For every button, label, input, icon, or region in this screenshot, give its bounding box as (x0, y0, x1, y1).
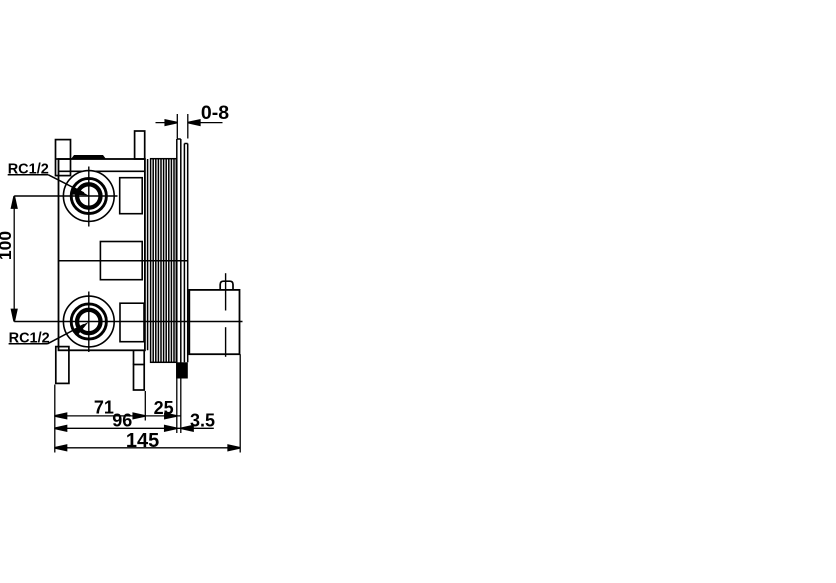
wall plate back (183, 144, 185, 363)
outlet nub (220, 281, 233, 290)
bottom dim extension lines (55, 354, 241, 452)
dim 100 left (13, 196, 15, 322)
body right flange line (147, 159, 149, 350)
LEFTVIEW (0, 102, 243, 453)
leader RC1/2 bottom (9, 343, 48, 345)
leader RC1/2 top (8, 174, 49, 176)
body cap line (59, 170, 145, 172)
plate foot block (176, 362, 188, 378)
svg-text:71: 71 (94, 398, 114, 418)
middle recess (100, 242, 142, 280)
svg-text:25: 25 (154, 398, 174, 418)
svg-text:RC1/2: RC1/2 (9, 331, 50, 347)
top mounting lug (56, 140, 71, 176)
lower port RC1/2 (63, 296, 114, 347)
lower recess (120, 303, 144, 342)
valve body (side view) (59, 159, 145, 350)
crosshair upper port (14, 195, 117, 197)
svg-text:0-8: 0-8 (201, 102, 229, 124)
bottom mounting lug (56, 347, 69, 384)
svg-text:96: 96 (112, 411, 132, 431)
svg-text:3.5: 3.5 (190, 411, 215, 431)
svg-text:100: 100 (0, 231, 15, 260)
svg-text:RC1/2: RC1/2 (8, 162, 49, 178)
labels (0, 102, 229, 452)
upper port RC1/2 (63, 171, 114, 222)
dim line 145 (55, 447, 241, 449)
dim line 96 / 3.5 (55, 427, 214, 429)
svg-text:145: 145 (126, 430, 159, 452)
protruding outlet box (189, 290, 239, 354)
crosshair lower port / box centerline (14, 321, 242, 323)
dim 0-8 (156, 114, 223, 139)
body mid line (59, 260, 188, 262)
gasket (black) on top edge (71, 155, 106, 159)
wall plate front (176, 139, 178, 379)
bottom foot (133, 350, 135, 364)
upper recess (120, 178, 143, 214)
dim line 71 / 25 (55, 415, 182, 417)
thread stack (151, 159, 177, 363)
top right small lug (135, 131, 145, 159)
